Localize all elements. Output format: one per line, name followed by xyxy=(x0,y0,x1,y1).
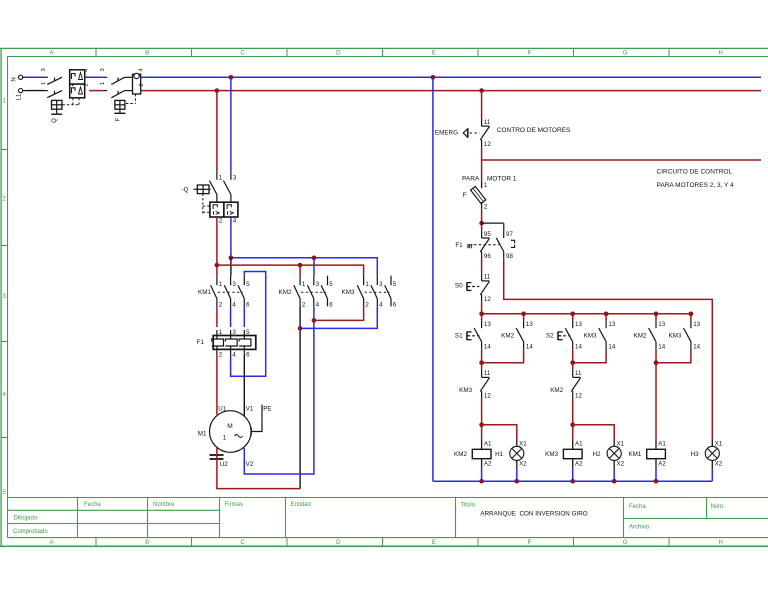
svg-text:12: 12 xyxy=(484,296,491,303)
relay contact F1 97-98 xyxy=(496,230,514,260)
wire KM1 pin4 to F1 xyxy=(230,306,232,327)
svg-text:2: 2 xyxy=(302,302,306,309)
svg-text:EMERG: EMERG xyxy=(435,130,458,137)
svg-text:G: G xyxy=(623,540,628,546)
svg-text:1: 1 xyxy=(219,174,223,181)
svg-text:1: 1 xyxy=(484,182,488,189)
svg-text:12: 12 xyxy=(484,141,491,148)
svg-text:14: 14 xyxy=(693,343,700,350)
terminal L1 xyxy=(17,89,27,101)
svg-text:2: 2 xyxy=(365,302,369,309)
text CIRCUITO DE CONTROL xyxy=(657,169,733,176)
svg-text:X1: X1 xyxy=(715,440,723,447)
svg-text:14: 14 xyxy=(608,343,615,350)
svg-text:Entidad: Entidad xyxy=(291,502,311,508)
wire EMERG to F xyxy=(481,147,483,181)
svg-text:Q: Q xyxy=(52,118,58,123)
terminal N xyxy=(12,75,27,81)
svg-text:PARA MOTORES 2, 3, Y 4: PARA MOTORES 2, 3, Y 4 xyxy=(657,182,735,189)
svg-text:13: 13 xyxy=(658,321,665,328)
wire V2 blue xyxy=(244,306,316,474)
svg-text:F: F xyxy=(528,540,532,546)
wire bus L1 (red) xyxy=(147,88,761,93)
wire node to 97 branch xyxy=(482,223,504,230)
svg-text:E: E xyxy=(432,50,436,56)
svg-text:Titulo: Titulo xyxy=(461,503,476,509)
emergency stop EMERG xyxy=(435,119,491,149)
svg-text:Dibujado: Dibujado xyxy=(14,516,38,522)
svg-text:KM3: KM3 xyxy=(545,451,558,458)
wire control bus (red) xyxy=(479,311,693,316)
svg-text:X2: X2 xyxy=(519,461,527,468)
svg-text:H2: H2 xyxy=(593,451,602,458)
svg-text:2: 2 xyxy=(219,218,223,225)
wire control bottom bus xyxy=(433,479,712,484)
svg-text:11: 11 xyxy=(484,274,491,281)
svg-text:A2: A2 xyxy=(575,461,583,468)
svg-text:KM3: KM3 xyxy=(459,387,472,394)
svg-text:13: 13 xyxy=(484,321,491,328)
wire L1 distribution to KM2 KM3 xyxy=(217,263,364,276)
svg-text:S0: S0 xyxy=(455,283,463,290)
wire KM1 pin2 to F1 xyxy=(216,306,218,327)
wire KM1 branch xyxy=(655,363,657,440)
lamp H1 xyxy=(495,440,527,481)
svg-text:CONTRO DE MOTORES: CONTRO DE MOTORES xyxy=(497,127,571,134)
svg-text:3: 3 xyxy=(379,281,383,288)
svg-text:H: H xyxy=(719,50,723,56)
svg-text:Archivo:: Archivo: xyxy=(629,525,651,531)
svg-text:3: 3 xyxy=(41,68,47,71)
svg-text:5: 5 xyxy=(329,281,333,288)
wire F1 pin6 to motor V1 xyxy=(243,355,245,416)
button S2 and contact KM3 13-14 xyxy=(546,314,616,365)
svg-text:CIRCUITO DE CONTROL: CIRCUITO DE CONTROL xyxy=(657,169,733,176)
wire Q to F (N row) xyxy=(85,76,104,78)
svg-text:Fecha: Fecha xyxy=(629,504,646,510)
svg-text:KM2: KM2 xyxy=(501,333,514,340)
svg-text:4: 4 xyxy=(233,218,237,225)
wire to lamp H1 xyxy=(482,425,517,440)
svg-text:4: 4 xyxy=(232,352,236,359)
svg-text:A2: A2 xyxy=(484,461,492,468)
text MOTOR 1 xyxy=(487,176,517,183)
contacts KM2 and KM3 13-14 xyxy=(634,314,701,365)
svg-text:3: 3 xyxy=(233,174,237,181)
wire KM2 pin2 black down xyxy=(298,306,303,488)
Q handle linkage xyxy=(182,185,211,214)
svg-text:5: 5 xyxy=(246,281,250,288)
stop button S0 xyxy=(455,273,491,303)
wire F1 pin4 loop to KM1 pin5 xyxy=(231,272,266,377)
lamp H2 xyxy=(593,440,625,481)
svg-text:Fecha: Fecha xyxy=(84,502,101,508)
svg-text:2: 2 xyxy=(484,203,488,210)
svg-text:U1: U1 xyxy=(218,405,226,412)
svg-text:L1: L1 xyxy=(17,93,23,100)
svg-text:97: 97 xyxy=(506,231,513,238)
svg-text:KM2: KM2 xyxy=(634,333,647,340)
svg-text:14: 14 xyxy=(658,343,665,350)
fuse F (control) xyxy=(463,182,488,211)
svg-text:3: 3 xyxy=(316,281,320,288)
svg-text:Comprobado: Comprobado xyxy=(13,529,48,535)
svg-text:X1: X1 xyxy=(617,440,625,447)
svg-text:11: 11 xyxy=(484,119,491,126)
svg-text:S2: S2 xyxy=(546,333,554,340)
svg-text:H: H xyxy=(719,540,723,546)
svg-text:2: 2 xyxy=(219,352,223,359)
wire -Q pin2 down xyxy=(215,217,220,276)
svg-text:S1: S1 xyxy=(455,333,463,340)
wire S0 to bus xyxy=(481,302,483,314)
svg-text:C: C xyxy=(241,50,246,56)
coil KM3 xyxy=(545,440,583,481)
wire N distribution to KM2 KM3 xyxy=(231,255,377,275)
svg-text:G: G xyxy=(623,50,628,56)
contact KM3 11-12 xyxy=(459,363,491,427)
svg-text:14: 14 xyxy=(575,343,582,350)
svg-text:V1: V1 xyxy=(246,405,254,412)
contactor KM1 power contacts xyxy=(198,276,250,309)
svg-text:11: 11 xyxy=(575,370,582,377)
svg-text:5: 5 xyxy=(246,329,250,336)
svg-text:F: F xyxy=(528,50,532,56)
svg-text:KM1: KM1 xyxy=(198,289,211,296)
svg-text:KM3: KM3 xyxy=(668,333,681,340)
svg-text:1: 1 xyxy=(223,435,227,442)
svg-text:B: B xyxy=(145,540,149,546)
svg-text:6: 6 xyxy=(246,352,250,359)
contactor KM3 power contacts xyxy=(342,276,397,309)
motor terminal bars U2 xyxy=(210,455,224,459)
svg-text:12: 12 xyxy=(484,393,491,400)
svg-text:KM2: KM2 xyxy=(279,289,292,296)
svg-text:M: M xyxy=(227,423,233,430)
coil KM2 xyxy=(454,440,492,481)
wire L1 terminal to Q xyxy=(26,90,45,92)
svg-text:4: 4 xyxy=(232,302,236,309)
wire to lamp H2 xyxy=(573,425,615,440)
svg-text:5: 5 xyxy=(393,281,397,288)
wire L1 control drop xyxy=(481,91,483,119)
wire PE xyxy=(251,405,262,436)
svg-text:D: D xyxy=(336,540,341,546)
contactor KM2 power contacts xyxy=(279,276,334,309)
wire L1 down to -Q xyxy=(216,91,218,172)
svg-text:A1: A1 xyxy=(484,440,492,447)
svg-text:H3: H3 xyxy=(691,451,700,458)
svg-text:95: 95 xyxy=(484,231,491,238)
wire F to F1 node xyxy=(479,209,484,231)
wire 98 branch to lamp H3 xyxy=(504,259,713,440)
svg-text:13: 13 xyxy=(575,321,582,328)
relay contact F1 95-96 xyxy=(455,230,499,260)
svg-text:1: 1 xyxy=(365,281,369,288)
svg-text:2: 2 xyxy=(139,83,145,86)
wire KM3 pin4 to node xyxy=(300,306,377,328)
svg-text:4: 4 xyxy=(316,302,320,309)
text PARA MOTORES 2 3 Y 4 xyxy=(657,182,735,189)
coil KM1 xyxy=(628,440,666,481)
wire N control drop xyxy=(432,77,434,481)
svg-text:3: 3 xyxy=(232,329,236,336)
svg-text:1: 1 xyxy=(219,281,223,288)
svg-text:98: 98 xyxy=(506,253,513,260)
text CONTRO DE MOTORES xyxy=(497,127,571,134)
switch-fuse F (rotated) xyxy=(100,68,146,122)
svg-text:KM2: KM2 xyxy=(550,387,563,394)
svg-text:Firmas: Firmas xyxy=(225,502,243,508)
svg-text:14: 14 xyxy=(484,343,491,350)
text PARA xyxy=(462,176,480,183)
svg-text:1: 1 xyxy=(219,329,223,336)
svg-text:1: 1 xyxy=(100,82,106,85)
svg-text:2: 2 xyxy=(219,302,223,309)
wire N down to -Q xyxy=(230,77,232,171)
motor M1 xyxy=(198,405,272,468)
wire KM1 pin6 to F1 xyxy=(243,306,245,327)
wire KM3 pin2 to node xyxy=(314,306,364,320)
svg-text:1: 1 xyxy=(302,281,306,288)
wire F1 pin2 to motor U1 xyxy=(216,355,218,415)
wire -Q pin4 down xyxy=(229,217,234,276)
wire 96 to S0 xyxy=(481,259,483,273)
svg-text:PE: PE xyxy=(263,405,271,412)
svg-text:14: 14 xyxy=(526,343,533,350)
svg-text:X2: X2 xyxy=(617,461,625,468)
svg-text:A1: A1 xyxy=(658,440,666,447)
svg-text:6: 6 xyxy=(246,302,250,309)
svg-text:6: 6 xyxy=(329,302,333,309)
wire branch row 160 (red) xyxy=(482,159,761,161)
svg-text:96: 96 xyxy=(484,253,491,260)
svg-text:-Q: -Q xyxy=(182,186,189,193)
svg-text:ARRANQUE CON INVERSION GIRO: ARRANQUE CON INVERSION GIRO xyxy=(480,510,588,517)
svg-text:H1: H1 xyxy=(495,451,504,458)
svg-text:B: B xyxy=(145,50,149,56)
svg-text:U2: U2 xyxy=(220,461,228,468)
svg-text:KM1: KM1 xyxy=(628,451,641,458)
svg-text:Nombre: Nombre xyxy=(153,502,175,508)
svg-text:A2: A2 xyxy=(658,461,666,468)
svg-text:E: E xyxy=(432,540,436,546)
contact KM2 11-12 xyxy=(550,363,582,427)
wire N terminal to Q xyxy=(26,76,45,78)
svg-text:3: 3 xyxy=(232,281,236,288)
wire U2 to KM network xyxy=(217,448,300,489)
svg-text:A: A xyxy=(49,50,53,56)
svg-text:13: 13 xyxy=(693,321,700,328)
svg-text:6: 6 xyxy=(393,302,397,309)
svg-text:13: 13 xyxy=(608,321,615,328)
svg-text:M1: M1 xyxy=(198,431,207,438)
svg-text:KM3: KM3 xyxy=(584,333,597,340)
svg-text:1: 1 xyxy=(41,82,47,85)
svg-text:3: 3 xyxy=(100,68,106,71)
svg-text:A: A xyxy=(49,540,53,546)
svg-text:X2: X2 xyxy=(715,461,723,468)
svg-text:KM2: KM2 xyxy=(454,451,467,458)
svg-text:A1: A1 xyxy=(575,440,583,447)
thermal relay F1 xyxy=(197,329,256,358)
svg-text:PARA: PARA xyxy=(462,176,480,183)
svg-text:F1: F1 xyxy=(455,242,463,249)
svg-text:F: F xyxy=(463,192,467,199)
svg-text:F1: F1 xyxy=(197,339,205,346)
svg-text:X1: X1 xyxy=(519,440,527,447)
button S1 and contact KM2 13-14 xyxy=(455,314,533,365)
breaker Q (2-pole, rotated) xyxy=(41,68,90,123)
wire Q to F (L1 row) xyxy=(89,90,104,92)
svg-text:V2: V2 xyxy=(246,461,254,468)
svg-text:F: F xyxy=(115,117,121,121)
svg-text:N: N xyxy=(12,77,18,81)
svg-text:MOTOR 1: MOTOR 1 xyxy=(487,176,517,183)
svg-text:11: 11 xyxy=(484,370,491,377)
lamp H3 xyxy=(691,440,723,481)
svg-text:KM3: KM3 xyxy=(342,289,355,296)
svg-text:13: 13 xyxy=(526,321,533,328)
svg-text:4: 4 xyxy=(379,302,383,309)
svg-text:C: C xyxy=(241,540,246,546)
svg-text:12: 12 xyxy=(575,393,582,400)
breaker -Q (power poles) xyxy=(209,171,238,224)
svg-text:Núm:: Núm: xyxy=(711,504,726,510)
svg-text:D: D xyxy=(336,50,341,56)
svg-text:2: 2 xyxy=(84,83,90,86)
wire bus N (blue) xyxy=(147,75,761,80)
